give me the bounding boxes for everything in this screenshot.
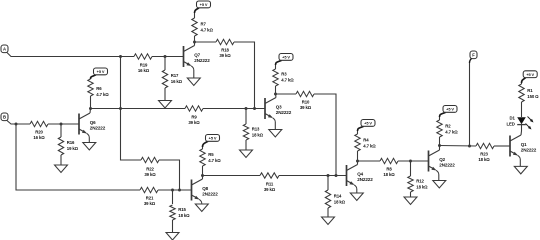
svg-text:4.7 kΩ: 4.7 kΩ [363, 144, 376, 149]
svg-text:18 kΩ: 18 kΩ [178, 213, 190, 218]
svg-text:R16: R16 [67, 140, 75, 145]
svg-text:2N2222: 2N2222 [521, 148, 537, 153]
svg-text:D1: D1 [510, 116, 516, 121]
svg-text:39 kΩ: 39 kΩ [188, 120, 200, 125]
svg-text:Q3: Q3 [276, 105, 282, 110]
svg-text:4.7 kΩ: 4.7 kΩ [445, 130, 458, 135]
svg-text:+5 V: +5 V [97, 69, 105, 74]
svg-text:39 kΩ: 39 kΩ [144, 201, 156, 206]
svg-text:+5 V: +5 V [209, 136, 217, 141]
svg-text:18 kΩ: 18 kΩ [334, 200, 346, 205]
svg-text:Q7: Q7 [194, 53, 200, 58]
svg-text:Q2: Q2 [439, 157, 445, 162]
svg-text:R6: R6 [96, 86, 102, 91]
svg-text:R19: R19 [140, 63, 148, 68]
svg-text:2N2222: 2N2222 [357, 177, 373, 182]
svg-text:2N2222: 2N2222 [194, 58, 210, 63]
svg-text:R4: R4 [363, 138, 369, 143]
svg-text:18 kΩ: 18 kΩ [383, 172, 395, 177]
svg-text:Q6: Q6 [90, 120, 96, 125]
svg-text:2N2222: 2N2222 [276, 110, 292, 115]
svg-text:A: A [3, 47, 6, 52]
svg-text:+5 V: +5 V [282, 55, 290, 60]
svg-text:39 kΩ: 39 kΩ [219, 53, 231, 58]
svg-text:4.7 kΩ: 4.7 kΩ [281, 78, 294, 83]
svg-text:R2: R2 [445, 124, 451, 129]
svg-text:150 Ω: 150 Ω [527, 94, 539, 99]
svg-text:R13: R13 [252, 127, 260, 132]
svg-text:4.7 kΩ: 4.7 kΩ [201, 28, 214, 33]
svg-text:R8: R8 [386, 167, 392, 172]
svg-text:Q1: Q1 [521, 142, 527, 147]
svg-text:R21: R21 [146, 196, 154, 201]
svg-text:18 kΩ: 18 kΩ [478, 157, 490, 162]
svg-text:16 kΩ: 16 kΩ [33, 135, 45, 140]
svg-text:2N2222: 2N2222 [90, 126, 106, 131]
svg-text:R17: R17 [171, 73, 179, 78]
svg-text:+5 V: +5 V [364, 121, 372, 126]
svg-text:16 kΩ: 16 kΩ [138, 68, 150, 73]
svg-text:R5: R5 [208, 152, 214, 157]
svg-text:B: B [3, 115, 6, 120]
svg-text:R20: R20 [35, 130, 43, 135]
svg-text:39 kΩ: 39 kΩ [300, 105, 312, 110]
svg-text:R22: R22 [146, 167, 154, 172]
svg-text:R7: R7 [201, 22, 207, 27]
svg-text:R18: R18 [221, 48, 229, 53]
svg-text:Q8: Q8 [202, 186, 208, 191]
svg-text:4.7 kΩ: 4.7 kΩ [96, 92, 109, 97]
svg-text:+5 V: +5 V [526, 72, 534, 77]
svg-text:LED: LED [507, 122, 515, 127]
svg-text:2N2222: 2N2222 [439, 163, 455, 168]
svg-text:R14: R14 [334, 194, 342, 199]
svg-text:+5 V: +5 V [446, 107, 454, 112]
svg-text:39 kΩ: 39 kΩ [264, 187, 276, 192]
svg-text:R9: R9 [191, 115, 197, 120]
svg-text:16 kΩ: 16 kΩ [171, 79, 183, 84]
svg-text:Q4: Q4 [357, 172, 363, 177]
svg-text:R12: R12 [416, 179, 424, 184]
svg-text:18 kΩ: 18 kΩ [416, 185, 428, 190]
svg-text:39 kΩ: 39 kΩ [144, 172, 156, 177]
svg-text:4.7 kΩ: 4.7 kΩ [208, 158, 221, 163]
svg-text:R15: R15 [178, 207, 186, 212]
svg-text:R11: R11 [266, 182, 274, 187]
svg-text:R10: R10 [302, 100, 310, 105]
svg-text:2N2222: 2N2222 [202, 192, 218, 197]
svg-text:19 kΩ: 19 kΩ [67, 146, 79, 151]
svg-text:18 kΩ: 18 kΩ [252, 133, 264, 138]
svg-text:R1: R1 [527, 88, 533, 93]
svg-text:+5 V: +5 V [200, 2, 208, 7]
svg-text:R23: R23 [480, 152, 488, 157]
svg-text:R3: R3 [281, 72, 287, 77]
